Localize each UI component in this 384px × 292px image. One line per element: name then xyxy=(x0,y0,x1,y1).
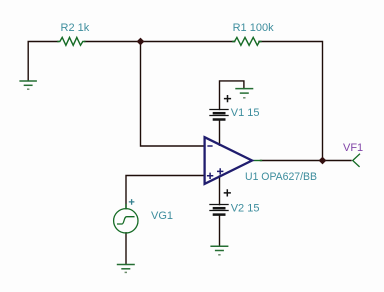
svg-text:V1 15: V1 15 xyxy=(231,107,260,119)
svg-text:U1 OPA627/BB: U1 OPA627/BB xyxy=(245,171,317,183)
svg-text:VG1: VG1 xyxy=(151,210,173,222)
svg-text:R1 100k: R1 100k xyxy=(233,22,274,34)
svg-text:R2 1k: R2 1k xyxy=(61,22,90,34)
svg-text:V2 15: V2 15 xyxy=(231,202,260,214)
svg-text:VF1: VF1 xyxy=(343,142,363,154)
